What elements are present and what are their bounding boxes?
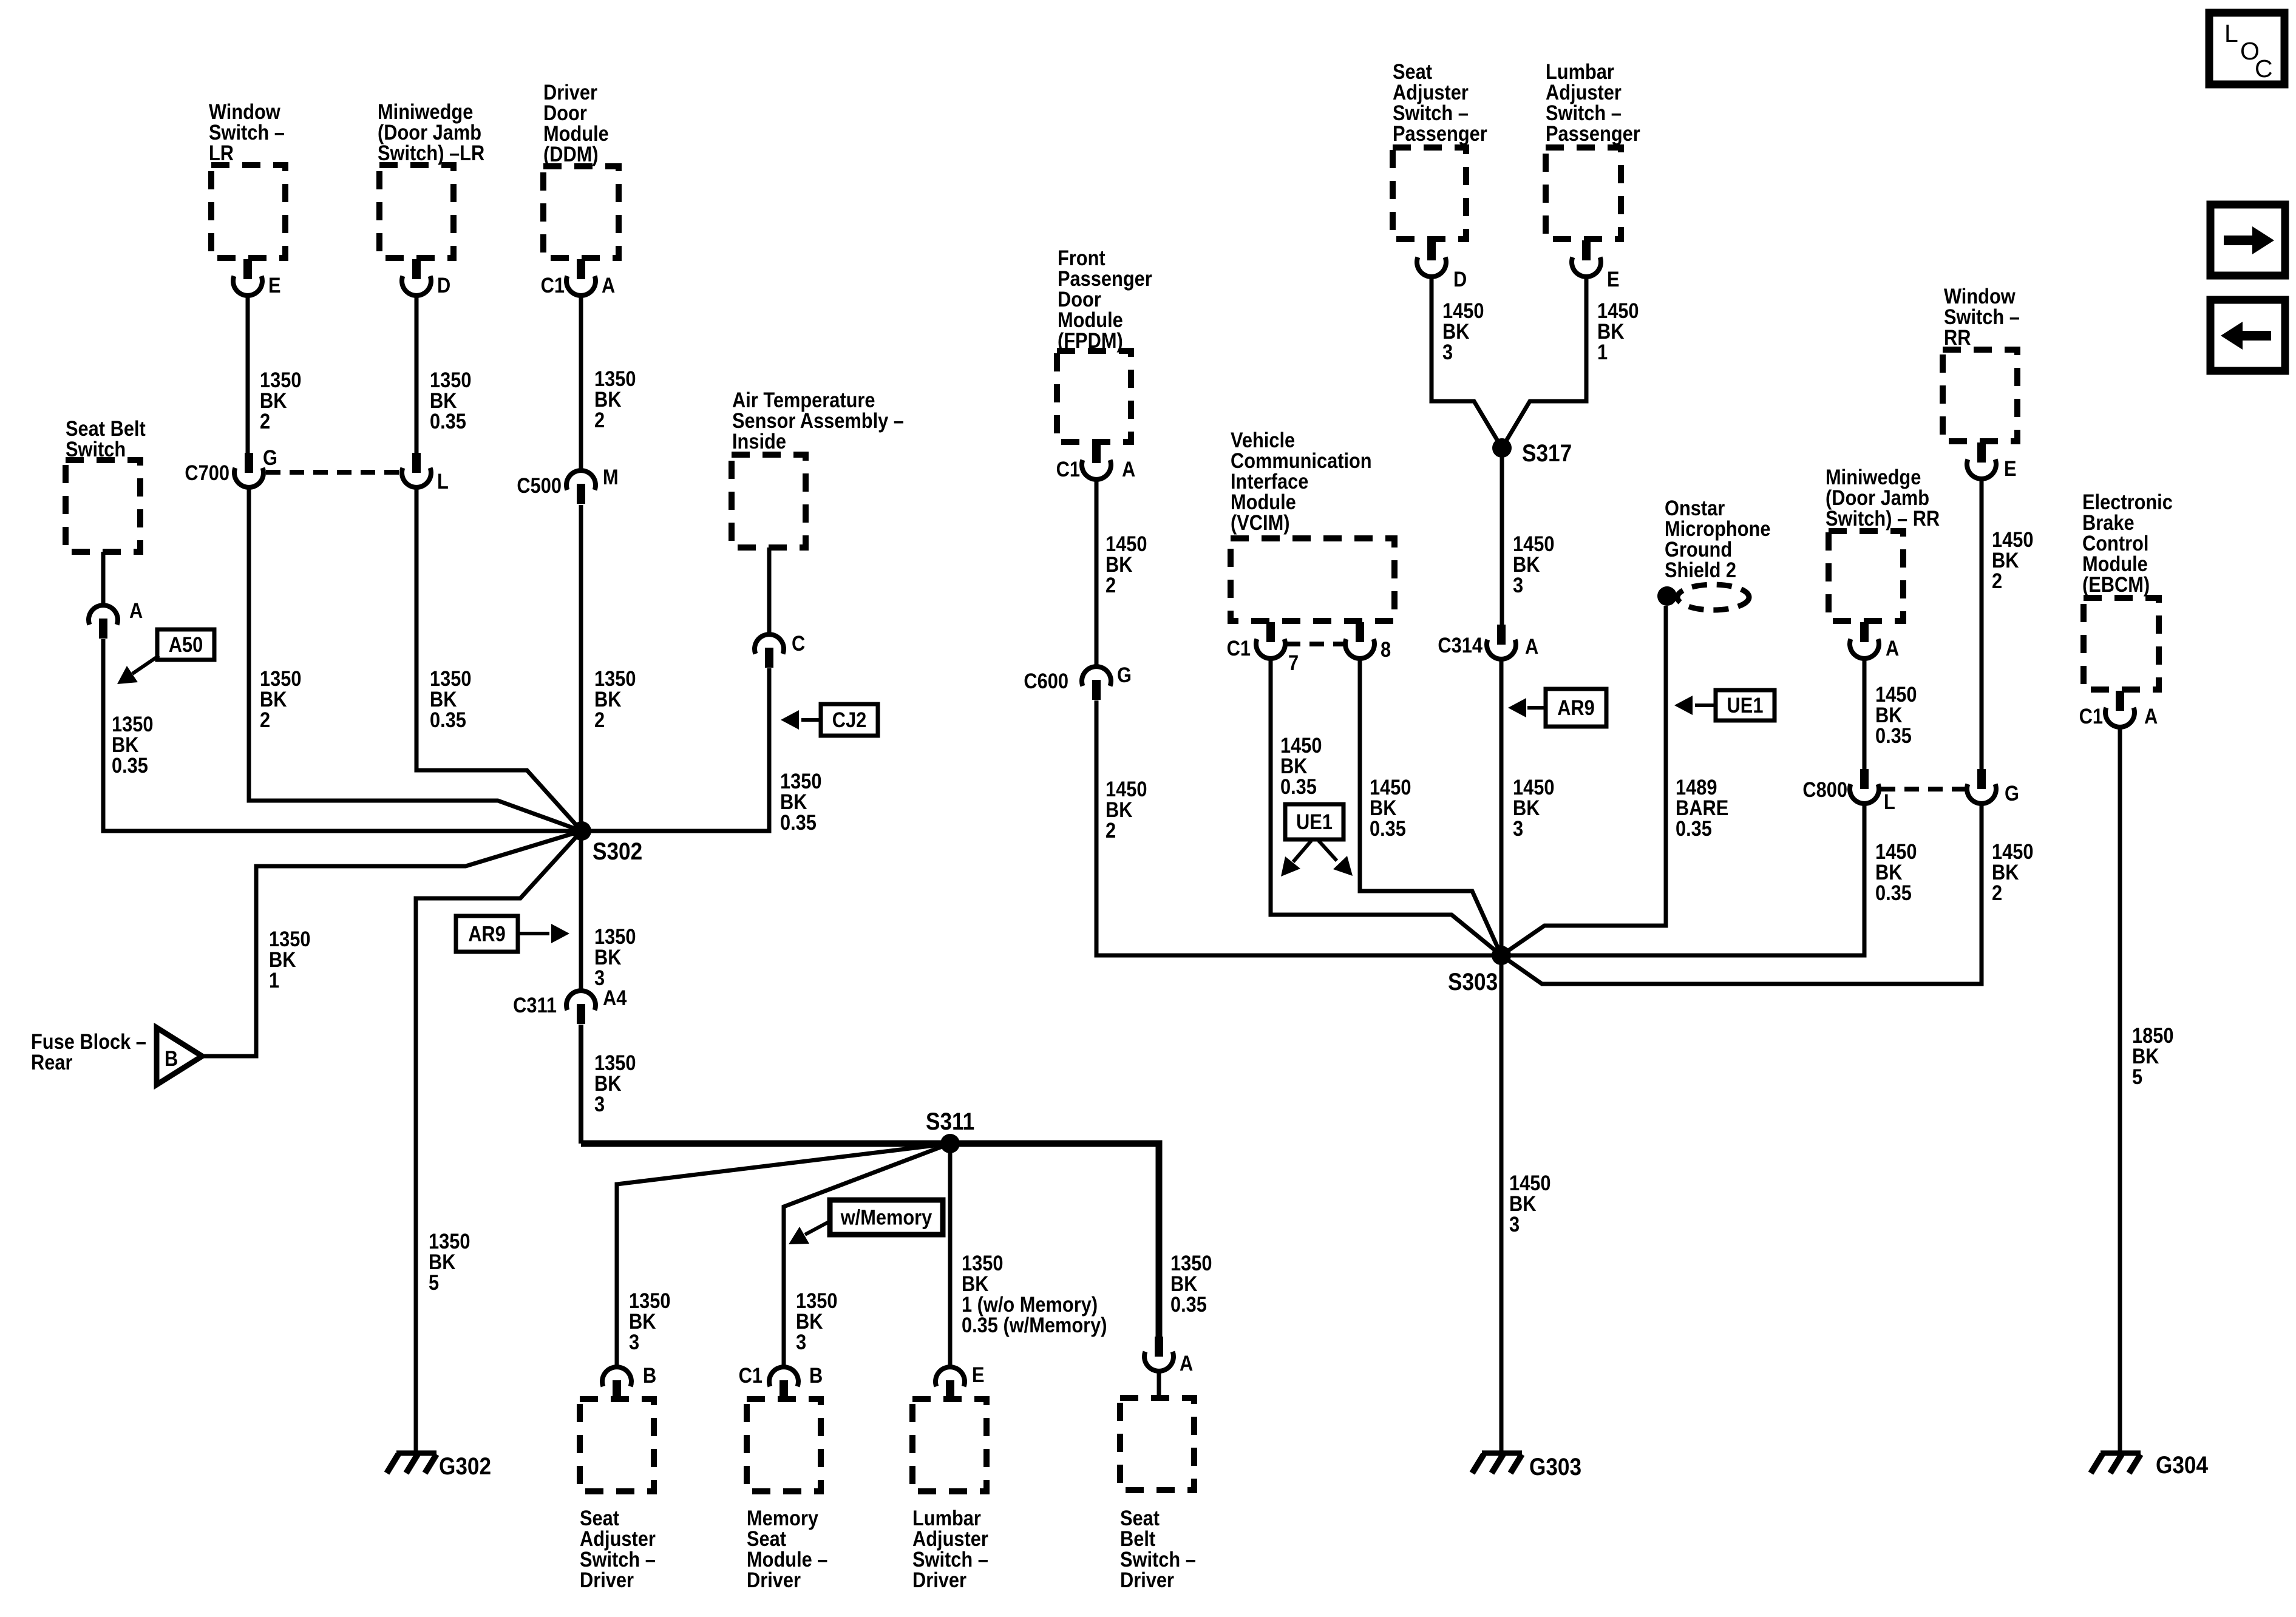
svg-text:UE1: UE1 — [1296, 810, 1333, 833]
flag AR9 with arrow (at C314 wire) — [1546, 689, 1606, 727]
svg-text:Switch) – RR: Switch) – RR — [1826, 506, 1940, 530]
wire label 1350 BK 2 (Window LR) — [260, 368, 301, 392]
component Fuse Block - Rear terminal B — [31, 1029, 146, 1053]
wire 1450 BK 2 from FPDM to C600 — [1095, 479, 1099, 666]
connector C500 pin M — [566, 470, 596, 490]
svg-text:E: E — [268, 273, 281, 297]
wire label 1350 BK 5 (G302 wire) — [429, 1229, 470, 1253]
svg-text:Passenger: Passenger — [1393, 121, 1487, 145]
legend right-arrow box — [2210, 205, 2285, 276]
svg-text:3: 3 — [1509, 1212, 1520, 1236]
wire label 1450 BK 3 (S317 to C314) — [1513, 532, 1554, 555]
connector pin D of Seat Adjuster Switch Passenger — [1427, 240, 1436, 260]
svg-text:0.35: 0.35 — [780, 810, 817, 834]
svg-text:Inside: Inside — [732, 429, 786, 453]
svg-text:C1: C1 — [1227, 636, 1251, 660]
component Air Temperature Sensor Assembly - Inside — [732, 455, 806, 547]
svg-text:(VCIM): (VCIM) — [1231, 510, 1289, 534]
legend LOC box — [2209, 13, 2284, 84]
svg-text:A: A — [1180, 1351, 1193, 1375]
splice S311 — [940, 1134, 960, 1153]
svg-text:Switch) –LR: Switch) –LR — [378, 141, 484, 164]
svg-text:AR9: AR9 — [1557, 696, 1595, 719]
connector pin E of Window Switch LR — [243, 259, 252, 279]
svg-text:C311: C311 — [513, 993, 557, 1017]
wire label 1450 BK 3 (C314 to S303) — [1513, 775, 1554, 799]
wire label 1450 BK 3 (S303 to G303) — [1509, 1171, 1550, 1195]
svg-text:7: 7 — [1288, 651, 1299, 674]
wire 1489 BARE 0.35 from Onstar shield to S303 — [1501, 606, 1666, 955]
wire from S311 to Seat Belt Switch Driver pin A — [950, 1144, 1159, 1337]
wire label 1350 BK 3 (S302 to C311) — [594, 924, 636, 948]
wire 1350 BK 0.35 from Seat Belt A to S302 — [103, 639, 582, 831]
svg-text:(FPDM): (FPDM) — [1058, 328, 1123, 352]
wire label 1350 BK 3 (Seat Adjuster Driver) — [629, 1289, 670, 1312]
connector pin A of Seat Belt Switch Driver — [1155, 1337, 1163, 1357]
svg-text:2: 2 — [260, 708, 270, 731]
flag UE1 with arrow (Onstar wire) — [1716, 690, 1775, 720]
dashed link C700 G-L — [266, 470, 399, 475]
connector C311 pin A4 — [566, 991, 596, 1010]
wire from C800 L to S303 — [1501, 804, 1864, 955]
svg-text:2: 2 — [260, 409, 270, 433]
wire from VCIM pin 8 to S303 — [1360, 659, 1501, 955]
ground G302 — [396, 1451, 436, 1456]
connector pin E of Window Switch RR — [1977, 442, 1986, 463]
svg-text:UE1: UE1 — [1727, 693, 1764, 717]
svg-text:B: B — [643, 1363, 656, 1387]
wire from Seat Belt Switch to pin A connector — [101, 552, 106, 605]
svg-text:C1: C1 — [2079, 704, 2103, 728]
flag CJ2 with arrow — [821, 704, 878, 736]
svg-text:C314: C314 — [1438, 633, 1483, 657]
component Lumbar Adjuster Switch - Passenger — [1546, 147, 1621, 239]
svg-text:Shield 2: Shield 2 — [1665, 558, 1736, 581]
svg-text:3: 3 — [796, 1330, 806, 1354]
svg-text:S303: S303 — [1448, 968, 1498, 995]
svg-text:B: B — [165, 1046, 178, 1070]
svg-text:G: G — [263, 446, 277, 469]
wire label 1350 BK 2 (DDM lower) — [594, 666, 636, 690]
svg-text:2: 2 — [1106, 573, 1116, 597]
ground G304 — [2101, 1451, 2141, 1456]
wire label 1350 BK 0.35 (Miniwedge LR) — [430, 368, 471, 392]
svg-text:Driver: Driver — [912, 1568, 966, 1592]
wire label 1350 BK 0.35 (Air Temp) — [780, 769, 821, 793]
svg-text:2: 2 — [594, 708, 605, 731]
connector pin A of Seat Belt Switch — [89, 605, 118, 625]
wire label 1350 BK 0.35 (Miniwedge LR lower) — [430, 666, 471, 690]
svg-text:C1: C1 — [1056, 457, 1080, 481]
svg-text:3: 3 — [1513, 573, 1523, 597]
wire from VCIM pin 7 to S303 — [1271, 659, 1501, 955]
svg-text:Driver: Driver — [580, 1568, 634, 1592]
component Miniwedge (Door Jamb Switch) - LR — [379, 165, 453, 258]
svg-text:A: A — [1122, 457, 1135, 481]
svg-text:S317: S317 — [1522, 439, 1572, 467]
connector pin A of Miniwedge RR — [1860, 622, 1869, 642]
svg-text:Driver: Driver — [1120, 1568, 1174, 1592]
component Seat Adjuster Switch - Passenger — [1393, 147, 1466, 239]
wire from C500 M through S302 down to C311 — [579, 505, 583, 990]
svg-text:Rear: Rear — [31, 1050, 73, 1074]
component Electronic Brake Control Module (EBCM) — [2084, 598, 2159, 690]
wire label 1350 BK 1 (Fuse Block) — [269, 927, 310, 951]
svg-text:0.35: 0.35 — [430, 409, 466, 433]
connector C800 pin L — [1860, 769, 1869, 789]
wire label 1450 BK 0.35 (VCIM pin 8) — [1370, 775, 1411, 799]
wire 1450 BK 1 from Lumbar Adjuster Passenger E to S317 — [1502, 276, 1586, 448]
svg-text:D: D — [1453, 267, 1467, 291]
connector C1 pin B of Memory Seat Module — [769, 1367, 798, 1386]
svg-text:3: 3 — [594, 1092, 605, 1116]
wire label 1450 BK 2 (FPDM) — [1106, 532, 1147, 555]
svg-text:(DDM): (DDM) — [543, 142, 599, 166]
component Vehicle Communication Interface Module (VCIM) — [1231, 538, 1394, 621]
wire from pin A connector into Seat Belt Switch Driver — [1157, 1372, 1161, 1398]
svg-text:3: 3 — [629, 1330, 639, 1354]
svg-text:L: L — [1884, 790, 1895, 813]
component Window Switch - RR — [1943, 350, 2017, 441]
svg-text:G303: G303 — [1529, 1453, 1581, 1480]
wire label 1450 BK 2 (C800 G to S303) — [1992, 839, 2033, 863]
svg-text:0.35: 0.35 — [1875, 724, 1912, 747]
wire from Air Temp Sensor to pin C connector — [767, 547, 772, 634]
svg-text:CJ2: CJ2 — [832, 708, 866, 731]
connector C1 pin A of FPDM — [1092, 443, 1101, 463]
flag UE1 with two arrows (VCIM wires) — [1285, 804, 1343, 839]
svg-text:A: A — [1525, 634, 1538, 658]
wire from C700 G to S302 — [249, 488, 582, 831]
splice S303 — [1492, 946, 1511, 965]
wire 1350 BK 2 from DDM to C500 — [579, 295, 583, 470]
svg-text:0.35: 0.35 — [1170, 1292, 1207, 1316]
connector C1 pin 8 of VCIM — [1356, 622, 1364, 642]
wire 1350 BK 0.35 from Miniwedge LR pin D to C700 L — [415, 295, 419, 453]
flag w/Memory with arrow — [830, 1200, 943, 1235]
wire 1450 BK 3 from S303 to G303 — [1500, 955, 1504, 1453]
wire label 1450 BK 0.35 (Miniwedge RR) — [1875, 682, 1917, 706]
svg-text:3: 3 — [1513, 816, 1523, 840]
connector C1 pin 7 of VCIM — [1266, 622, 1275, 642]
ground G303 — [1482, 1451, 1522, 1456]
wire label 1350 BK 0.35 (Seat Belt) — [112, 712, 153, 736]
svg-text:w/Memory: w/Memory — [840, 1205, 932, 1229]
svg-text:2: 2 — [1992, 569, 2002, 592]
svg-text:E: E — [1607, 267, 1620, 291]
svg-text:S302: S302 — [593, 838, 642, 865]
svg-text:A: A — [1886, 636, 1899, 660]
component Front Passenger Door Module (FPDM) — [1057, 351, 1131, 442]
svg-text:G: G — [1117, 663, 1132, 686]
connector C1 pin A of EBCM — [2116, 691, 2124, 711]
connector pin C of Air Temp Sensor — [755, 634, 784, 654]
connector pin E of Lumbar Adjuster Switch Driver — [936, 1367, 965, 1386]
wire label 1350 BK 3 (Memory Seat Module) — [796, 1289, 837, 1312]
wire 1450 BK 3 from S317 to C314 — [1500, 448, 1504, 625]
flag A50 with arrow — [157, 629, 214, 660]
svg-text:M: M — [603, 465, 619, 489]
component Onstar Microphone Ground Shield 2 — [1665, 496, 1725, 520]
wire label 1350 BK 2 (DDM upper) — [594, 367, 636, 390]
wire 1450 BK 2 from Window Switch RR to C800 G — [1980, 478, 1984, 769]
svg-text:G304: G304 — [2156, 1451, 2208, 1479]
connector pin D of Miniwedge LR — [412, 259, 421, 279]
svg-text:0.35: 0.35 — [112, 753, 148, 777]
wire 1850 BK 5 from EBCM to G304 — [2118, 727, 2122, 1453]
component Lumbar Adjuster Switch - Driver — [912, 1399, 987, 1491]
svg-text:Driver: Driver — [747, 1568, 801, 1592]
wire label 1350 BK 3 (C311 to S311) — [594, 1051, 636, 1074]
connector C600 pin G — [1082, 666, 1111, 686]
wire from S311 to Lumbar Adjuster Switch Driver pin E — [948, 1144, 953, 1366]
svg-text:0.35: 0.35 — [1676, 816, 1712, 840]
splice S302 — [572, 821, 591, 841]
svg-text:E: E — [2004, 456, 2017, 480]
wire label 1450 BK 1 (Lumbar Adjuster Passenger) — [1597, 299, 1639, 322]
svg-text:D: D — [437, 273, 450, 297]
wire from S311 to Seat Adjuster Switch Driver pin B — [617, 1144, 950, 1366]
svg-text:(EBCM): (EBCM) — [2082, 572, 2150, 596]
svg-text:1: 1 — [1597, 340, 1608, 364]
svg-text:Passenger: Passenger — [1546, 121, 1640, 145]
component Driver Door Module (DDM) — [543, 166, 619, 258]
wire label 1450 BK 2 (Window RR) — [1992, 527, 2033, 551]
svg-text:LR: LR — [209, 141, 234, 164]
connector C800 pin G — [1977, 769, 1986, 789]
wire 1450 BK 3 from Seat Adjuster Passenger D to S317 — [1432, 276, 1502, 448]
svg-text:2: 2 — [594, 408, 605, 432]
svg-text:G: G — [2005, 781, 2019, 805]
wire from C600 G to S303 — [1096, 700, 1501, 955]
wire 1350 BK 1 from Fuse Block B to S302 — [202, 831, 582, 1056]
svg-text:C: C — [2255, 55, 2273, 83]
svg-text:AR9: AR9 — [468, 922, 506, 946]
svg-text:S311: S311 — [926, 1108, 974, 1135]
legend left-arrow box — [2210, 300, 2285, 371]
svg-text:A: A — [2144, 704, 2158, 728]
component Seat Belt Switch - Driver — [1120, 1398, 1194, 1490]
wire from C800 G to S303 — [1501, 804, 1982, 984]
svg-text:0.35: 0.35 — [1280, 775, 1317, 798]
wire label 1450 BK 0.35 (C800 L to S303) — [1875, 839, 1917, 863]
svg-text:C: C — [792, 631, 805, 655]
svg-text:A: A — [129, 598, 143, 622]
wire from C314 A to S303 — [1500, 660, 1504, 955]
svg-text:C700: C700 — [185, 461, 229, 484]
connector C700 pin L — [412, 453, 421, 473]
wire 1350 BK 2 from Window Switch LR pin E to C700 — [246, 295, 250, 453]
wire from C700 L to S302 — [416, 488, 582, 831]
svg-text:5: 5 — [2132, 1065, 2142, 1088]
component Memory Seat Module - Driver — [747, 1399, 821, 1491]
svg-text:2: 2 — [1106, 818, 1116, 842]
wire label 1450 BK 2 (C600 to S303) — [1106, 777, 1147, 801]
dashed link C800 L-G — [1881, 787, 1966, 792]
svg-text:C600: C600 — [1024, 669, 1068, 693]
wire label 1450 BK 0.35 (VCIM pin 7) — [1280, 733, 1322, 757]
component Window Switch - LR — [211, 165, 285, 258]
svg-text:3: 3 — [1442, 340, 1453, 364]
component Miniwedge (Door Jamb Switch) - RR — [1829, 531, 1903, 621]
wire from C311 A4 to S311 — [579, 1025, 583, 1144]
svg-text:L: L — [437, 469, 449, 493]
svg-text:E: E — [972, 1363, 985, 1386]
svg-text:0.35 (w/Memory): 0.35 (w/Memory) — [962, 1313, 1107, 1337]
connector pin E of Lumbar Adjuster Switch Passenger — [1582, 240, 1591, 260]
svg-text:G302: G302 — [439, 1453, 491, 1480]
svg-text:L: L — [2224, 19, 2238, 47]
connector C314 pin A — [1497, 625, 1506, 645]
dashed link VCIM pins 7-8 — [1286, 642, 1345, 646]
svg-text:A50: A50 — [169, 632, 203, 656]
splice S317 — [1492, 438, 1512, 458]
wire label 1850 BK 5 (EBCM) — [2132, 1023, 2173, 1047]
wire 1350 BK 5 from S302 to G302 — [416, 831, 582, 1453]
wire label 1450 BK 3 (Seat Adjuster Passenger) — [1442, 299, 1484, 322]
wire label 1350 BK 1 w/o Memory (Lumbar Driver) — [962, 1251, 1003, 1275]
svg-text:1: 1 — [269, 968, 279, 992]
wire label 1350 BK 2 (Window LR lower) — [260, 666, 301, 690]
flag AR9 with arrow (at S302) — [456, 916, 518, 952]
svg-text:0.35: 0.35 — [430, 708, 466, 731]
svg-text:C800: C800 — [1802, 778, 1847, 801]
wire 1350 BK 0.35 from Air Temp C to S302 — [582, 668, 769, 831]
svg-text:0.35: 0.35 — [1370, 816, 1406, 840]
svg-text:5: 5 — [429, 1270, 439, 1294]
wire label 1489 BARE 0.35 (Onstar) — [1676, 775, 1717, 799]
svg-text:C1: C1 — [739, 1363, 763, 1387]
svg-text:Switch: Switch — [66, 437, 126, 461]
component Seat Adjuster Switch - Driver — [580, 1399, 654, 1491]
svg-text:2: 2 — [1992, 881, 2002, 904]
svg-text:0.35: 0.35 — [1875, 881, 1912, 904]
svg-text:C500: C500 — [517, 473, 562, 497]
connector pin B of Seat Adjuster Switch Driver — [602, 1367, 631, 1386]
connector C700 pin G — [245, 453, 253, 473]
wire label 1350 BK 0.35 (Seat Belt Driver) — [1170, 1251, 1212, 1275]
component Seat Belt Switch — [66, 460, 140, 552]
svg-text:C1: C1 — [541, 273, 565, 297]
svg-text:A: A — [602, 273, 615, 297]
wire from S311 to Memory Seat Module pin B — [784, 1144, 950, 1366]
svg-text:A4: A4 — [603, 986, 627, 1009]
svg-text:B: B — [809, 1363, 823, 1387]
svg-text:8: 8 — [1381, 637, 1391, 661]
svg-text:RR: RR — [1944, 325, 1971, 349]
connector C1 pin A of DDM — [577, 259, 585, 279]
wire 1450 BK 0.35 from Miniwedge RR to C800 L — [1863, 658, 1867, 769]
